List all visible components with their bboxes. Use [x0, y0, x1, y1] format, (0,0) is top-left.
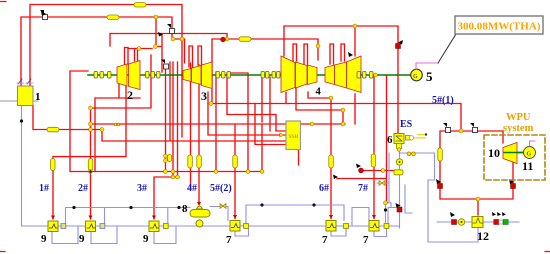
deaerator 8: [182, 202, 210, 227]
wire left mesh: [33, 39, 345, 219]
svg-text:8: 8: [182, 203, 188, 215]
extraction labels: [39, 95, 454, 194]
black dots on blue lines: [20, 119, 387, 211]
junction dots yellow: [89, 15, 481, 205]
svg-text:5: 5: [426, 69, 433, 84]
heater 7 no3: [363, 215, 379, 246]
svg-text:4#: 4#: [187, 183, 197, 194]
gland steam condenser 6: [387, 133, 427, 165]
valve V5 on WPU supply: [470, 123, 478, 133]
svg-text:5#(2): 5#(2): [210, 183, 232, 194]
svg-text:7: 7: [226, 234, 232, 246]
valve V3 at IP turbine inlet: [161, 60, 169, 70]
svg-text:9: 9: [41, 233, 47, 245]
svg-text:9: 9: [79, 233, 85, 245]
crown symbol: [114, 123, 120, 126]
LP inlet loops: [189, 44, 345, 67]
svg-text:1#: 1#: [39, 183, 49, 194]
heater 9 no2: [79, 216, 96, 246]
valve V4 on WPU supply: [443, 123, 451, 133]
valve V2 on reheat line: [167, 24, 175, 34]
svg-text:7: 7: [363, 234, 369, 246]
svg-text:6#: 6#: [319, 183, 329, 194]
heater 9 no1: [41, 216, 58, 246]
wire generator to MW label: [416, 63, 438, 69]
svg-text:WPU: WPU: [506, 112, 531, 123]
outlet valve squares: [61, 224, 105, 229]
wire 5#(1) extraction to WPU: [211, 104, 513, 216]
heater 9 no3: [143, 216, 159, 246]
valve V1 on main steam line: [40, 10, 48, 20]
wire condensate blue network: [22, 105, 520, 244]
wire middle/right mesh: [227, 26, 398, 219]
shaft bearings: [94, 72, 373, 79]
shaft green line: [88, 75, 523, 153]
SSR box: [280, 121, 301, 150]
svg-text:300.08MW(THA): 300.08MW(THA): [458, 21, 541, 33]
HP turbine 2: [117, 61, 140, 90]
svg-text:12: 12: [477, 229, 489, 243]
svg-text:11: 11: [522, 159, 533, 173]
WPU turbine 10: [503, 143, 517, 164]
bowtie valves yellow: [220, 152, 415, 209]
svg-text:SSR: SSR: [289, 134, 300, 140]
heater 7 no2: [322, 215, 336, 246]
svg-text:4: 4: [316, 87, 322, 98]
svg-text:7: 7: [322, 234, 328, 246]
red square terminals: [221, 37, 516, 224]
boiler 1: [0, 79, 41, 106]
svg-text:2: 2: [127, 88, 133, 102]
svg-text:1: 1: [35, 91, 41, 103]
svg-text:3: 3: [201, 89, 207, 103]
svg-text:10: 10: [488, 146, 500, 160]
condenser 12: [458, 217, 489, 244]
svg-text:system: system: [503, 123, 534, 134]
wire main steam lines top: [21, 5, 398, 134]
yellow capsules on steam lines: [47, 3, 442, 175]
green square terminal: [499, 220, 503, 224]
svg-text:7#: 7#: [358, 183, 368, 194]
svg-text:5#(1): 5#(1): [432, 95, 454, 106]
svg-text:ES: ES: [400, 119, 413, 130]
svg-text:3#: 3#: [137, 183, 147, 194]
svg-text:9: 9: [143, 233, 149, 245]
LP turbine 4 double flow: [281, 56, 361, 93]
heater 7 no1: [226, 215, 240, 246]
black arrows: [41, 11, 514, 217]
svg-text:G: G: [413, 74, 418, 80]
svg-text:2#: 2#: [78, 183, 88, 194]
WPU system dashed box: [484, 135, 545, 180]
WPU generator 11: [524, 147, 536, 159]
IP turbine 3: [183, 62, 212, 89]
generator 5: [411, 69, 433, 84]
svg-text:G: G: [527, 152, 532, 158]
label 300.08MW(THA): [455, 16, 543, 34]
svg-text:6: 6: [387, 134, 393, 146]
